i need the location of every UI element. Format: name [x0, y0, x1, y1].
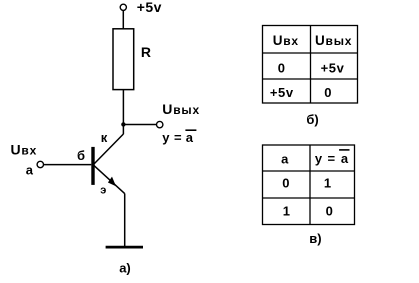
svg-text:+5v: +5v — [321, 61, 345, 76]
svg-text:у: у — [162, 130, 170, 145]
power terminal +5v — [120, 4, 126, 10]
ground — [106, 246, 143, 249]
collector wire diagonal — [94, 134, 124, 164]
svg-text:а): а) — [119, 261, 131, 276]
emitter wire diagonal — [94, 166, 125, 194]
svg-text:=: = — [328, 151, 336, 166]
table v) column divider — [309, 145, 311, 225]
wire resistor to collector node — [122, 90, 124, 135]
svg-text:у: у — [315, 151, 323, 166]
base wire — [44, 164, 92, 166]
svg-text:Uвх: Uвх — [11, 142, 38, 158]
svg-text:б): б) — [306, 112, 318, 127]
svg-text:R: R — [141, 44, 151, 60]
label y = a-bar (output equation) — [162, 130, 196, 145]
svg-text:0: 0 — [324, 85, 331, 100]
svg-text:а: а — [186, 130, 194, 145]
svg-text:в): в) — [309, 231, 321, 246]
svg-text:Uвх: Uвх — [273, 33, 299, 48]
emitter arrow — [108, 177, 116, 187]
svg-text:+5v: +5v — [137, 0, 162, 15]
svg-text:0: 0 — [326, 203, 333, 218]
svg-text:б: б — [77, 148, 85, 163]
transistor base bar — [91, 147, 94, 185]
svg-text:Uвых: Uвых — [162, 101, 200, 117]
svg-text:а: а — [341, 151, 349, 166]
svg-text:0: 0 — [278, 61, 285, 76]
svg-text:+5v: +5v — [270, 85, 294, 100]
input terminal — [37, 161, 43, 167]
svg-text:0: 0 — [282, 175, 289, 190]
svg-text:э: э — [100, 185, 106, 197]
svg-text:1: 1 — [283, 203, 290, 218]
table v) row line 2 — [263, 197, 355, 199]
resistor R — [113, 29, 134, 90]
table b) column divider — [310, 26, 312, 104]
wire power terminal to resistor — [122, 11, 124, 29]
table v) row line 1 — [263, 170, 355, 172]
output terminal — [157, 121, 163, 127]
svg-text:к: к — [101, 130, 108, 145]
svg-text:1: 1 — [324, 175, 331, 190]
truth table v) logic : border — [263, 145, 355, 225]
junction node dot — [121, 122, 125, 126]
svg-text:а: а — [26, 162, 34, 177]
table v) header y = a-bar — [315, 150, 350, 166]
svg-text:=: = — [174, 130, 182, 145]
emitter vertical wire — [124, 194, 126, 247]
table b) row line 2 — [263, 78, 358, 80]
table b) row line 1 — [263, 52, 358, 54]
truth table b) voltages : border — [263, 26, 358, 104]
svg-text:а: а — [281, 151, 289, 166]
svg-text:Uвых: Uвых — [315, 33, 352, 48]
wire node to output terminal — [123, 124, 156, 126]
